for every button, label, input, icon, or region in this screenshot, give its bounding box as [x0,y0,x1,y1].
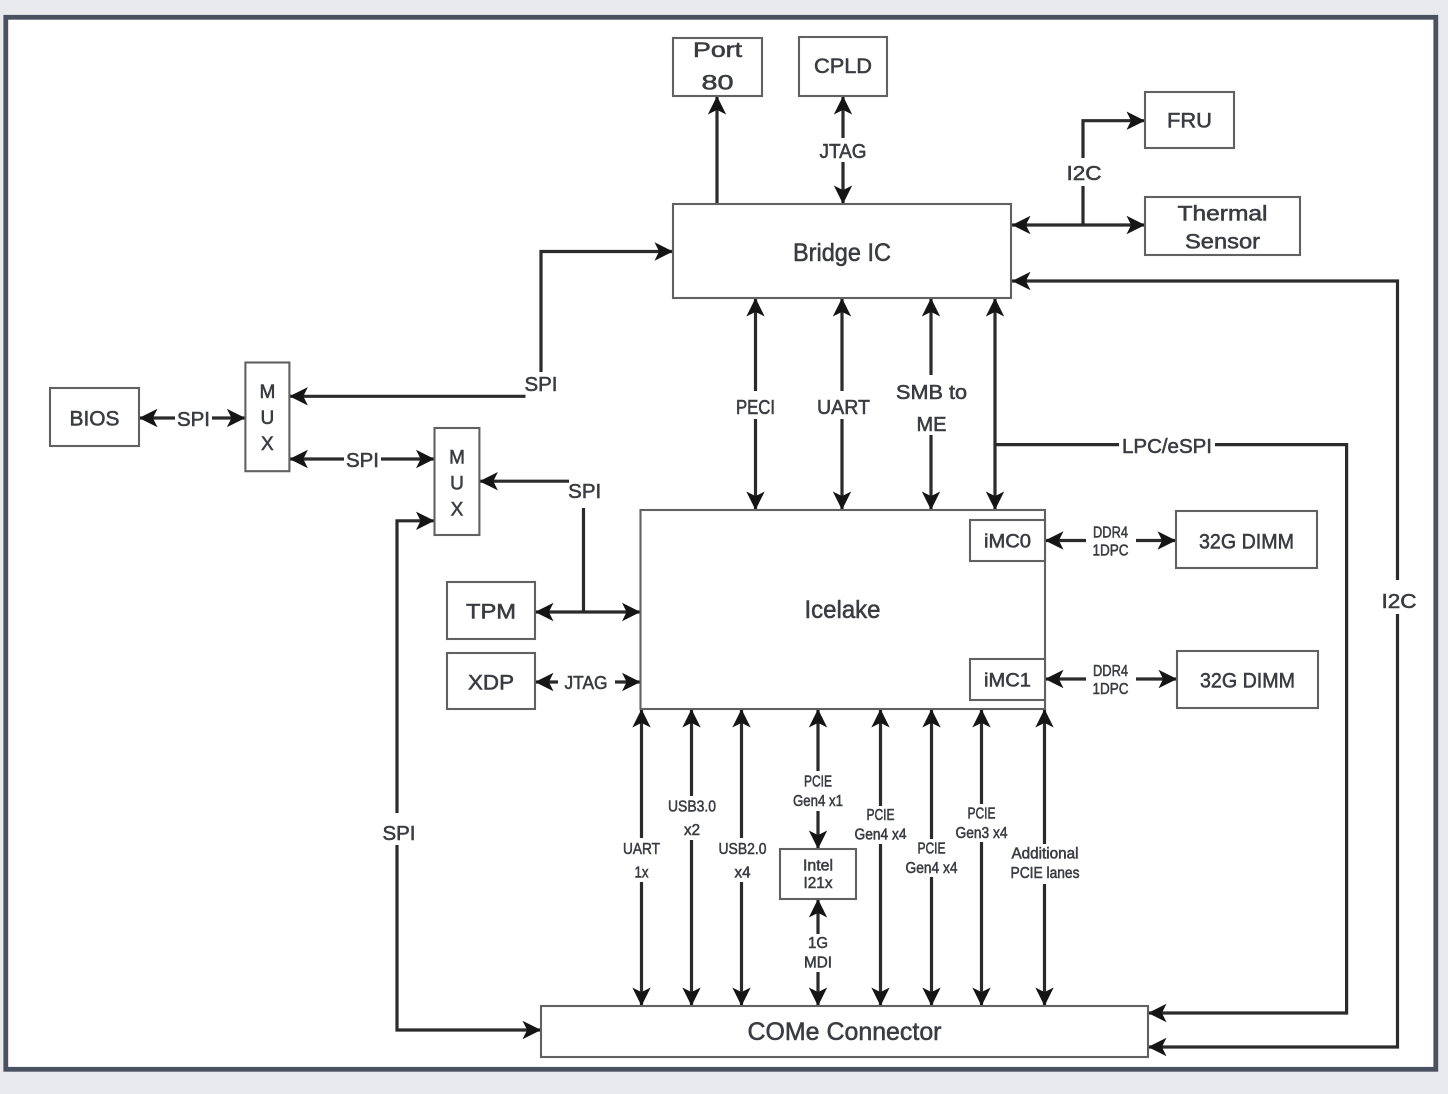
svg-text:Icelake: Icelake [805,596,881,624]
svg-text:32G DIMM: 32G DIMM [1199,531,1294,554]
svg-text:Intel: Intel [803,858,833,875]
svg-text:PCIE: PCIE [804,774,832,791]
wire: PCIE Gen3 x4 Icelake to COMe [980,709,983,1006]
label SPI (bridge elbow) [525,374,558,396]
svg-text:BIOS: BIOS [70,408,120,431]
box 32G DIMM (bottom) [1177,651,1318,708]
label JTAG (XDP) [558,669,615,693]
wire: SMB to ME Bridge IC to Icelake [929,298,932,510]
svg-text:PECI: PECI [736,397,775,419]
svg-text:SMB to: SMB to [896,382,967,404]
svg-text:PCIE: PCIE [867,807,895,824]
svg-text:Additional: Additional [1012,846,1079,863]
svg-text:SPI: SPI [383,823,416,845]
svg-text:UART: UART [817,397,870,419]
box Bridge IC [673,204,1011,298]
label PCIE Gen4 x4 (a) [850,806,911,844]
svg-text:CPLD: CPLD [814,55,872,78]
svg-text:M: M [449,448,465,469]
svg-text:PCIE: PCIE [918,841,946,858]
label SPI (MUX-MUX) [344,446,381,472]
wire: PECI Bridge IC to Icelake [754,298,757,510]
label LPC/eSPI [1119,432,1215,458]
svg-text:Bridge IC: Bridge IC [793,239,891,267]
svg-text:Gen4 x4: Gen4 x4 [855,827,907,844]
svg-text:Port: Port [693,39,742,62]
svg-text:x2: x2 [684,822,700,839]
box MUX 1 [245,363,289,472]
svg-text:XDP: XDP [468,672,514,695]
svg-text:DDR4: DDR4 [1093,525,1128,542]
svg-text:SPI: SPI [525,374,558,396]
label PECI [728,391,783,419]
wire: LPC/eSPI branch to COMe right [995,445,1347,1013]
label PCIE Gen4 x1 [788,771,848,811]
svg-text:X: X [451,500,464,521]
svg-text:MDI: MDI [804,955,832,972]
wire: long SPI MUX2 left to COMe left [397,521,541,1030]
svg-text:PCIE lanes: PCIE lanes [1011,865,1080,882]
box BIOS [50,388,139,446]
svg-text:32G DIMM: 32G DIMM [1200,670,1295,693]
label USB2.0 x4 [714,838,770,882]
svg-text:USB3.0: USB3.0 [668,799,716,816]
box Icelake [641,510,1046,709]
svg-text:Sensor: Sensor [1185,231,1260,254]
svg-text:FRU: FRU [1167,110,1212,133]
box iMC0 [970,520,1045,561]
svg-text:x4: x4 [735,865,751,882]
wire: vertical from SPI label to TPM line [582,508,585,612]
wire: DDR4 iMC1 to 32G DIMM [1045,677,1177,680]
svg-text:1DPC: 1DPC [1093,543,1129,560]
label PCIE Gen4 x4 (b) [901,839,962,877]
wire: SPI elbow into Bridge IC left [541,252,673,373]
wire: Bridge IC to Thermal Sensor [1012,223,1145,226]
label DDR4 1DPC (top) [1086,522,1136,560]
box FRU [1145,92,1234,148]
svg-text:JTAG: JTAG [565,673,608,693]
wire: UART 1x Icelake to COMe [640,709,643,1006]
wire: BIOS to MUX1 SPI [139,416,245,419]
svg-text:1DPC: 1DPC [1093,681,1129,698]
wire: TPM to Icelake [535,610,641,613]
wire: PCIE Gen4 x4 (a) Icelake to COMe [879,709,882,1006]
label JTAG (top) [813,138,873,163]
svg-text:I21x: I21x [804,875,833,892]
svg-text:COMe Connector: COMe Connector [748,1018,942,1046]
label SPI (BIOS) [175,405,212,431]
wire: LPC vertical Bridge IC to Icelake [993,298,996,510]
svg-text:80: 80 [702,72,734,95]
svg-text:U: U [261,408,275,429]
svg-text:I2C: I2C [1382,591,1417,613]
box 32G DIMM (top) [1176,511,1317,568]
svg-text:Gen4 x1: Gen4 x1 [793,793,843,810]
box Thermal Sensor [1145,197,1300,255]
label I2C (top) [1062,158,1104,186]
label SPI (MUX2 right) [568,481,601,503]
wire: USB2.0 x4 Icelake to COMe [740,709,743,1006]
svg-text:U: U [450,474,464,495]
svg-text:Gen4 x4: Gen4 x4 [906,860,958,877]
svg-text:JTAG: JTAG [820,141,867,163]
svg-text:iMC1: iMC1 [984,671,1031,692]
box Intel I21x [780,849,856,899]
svg-text:SPI: SPI [177,409,210,431]
svg-text:I2C: I2C [1067,163,1102,185]
wire: PCIE Gen4 x1 Icelake to Intel I21x [816,709,819,849]
svg-text:iMC0: iMC0 [984,532,1031,553]
label PCIE Gen3 x4 [951,804,1012,842]
wire: SPI into MUX2 right [479,480,569,483]
wire: SPI into MUX1 right [289,395,525,398]
svg-text:Gen3 x4: Gen3 x4 [956,825,1008,842]
box COMe Connector [541,1006,1148,1057]
label Additional PCIE lanes [1007,844,1083,884]
svg-text:ME: ME [917,414,947,436]
svg-text:PCIE: PCIE [968,806,996,823]
wire: I2C long line Bridge IC right to COMe right [1012,281,1398,1047]
wire: Bridge IC to Port 80 [715,96,718,204]
box iMC1 [970,659,1045,700]
label DDR4 1DPC (bottom) [1086,660,1136,698]
wire: USB3.0 x2 Icelake to COMe [690,709,693,1006]
wire: I2C elbow to FRU [1083,121,1145,225]
svg-text:UART: UART [623,841,660,858]
wire: PCIE Gen4 x4 (b) Icelake to COMe [930,709,933,1006]
label SPI (long left) [378,813,418,845]
box Port 80 [673,38,762,96]
wire: 1G MDI Intel I21x to COMe [816,899,819,1006]
wire: CPLD JTAG to Bridge IC [841,96,844,204]
svg-text:SPI: SPI [568,481,601,503]
wire: XDP JTAG to Icelake [535,680,641,683]
box XDP [447,653,535,709]
svg-text:TPM: TPM [466,601,516,624]
wire: Additional PCIE lanes Icelake to COMe [1043,709,1046,1006]
box CPLD [799,37,887,96]
svg-text:USB2.0: USB2.0 [719,841,767,858]
svg-text:M: M [259,382,275,403]
svg-text:DDR4: DDR4 [1093,663,1128,680]
svg-text:SPI: SPI [346,450,379,472]
box MUX 2 [435,428,480,535]
label UART [812,391,874,419]
label USB3.0 x2 [664,796,720,840]
svg-text:1x: 1x [635,865,649,882]
wire: DDR4 iMC0 to 32G DIMM [1045,539,1176,542]
label I2C (right) [1377,580,1419,614]
wire: MUX1 to MUX2 SPI [289,457,434,460]
wire: UART Bridge IC to Icelake [840,298,843,510]
svg-text:1G: 1G [808,935,828,952]
svg-text:X: X [261,434,274,455]
label SMB to ME [888,375,974,436]
label 1G MDI [798,934,838,972]
svg-text:LPC/eSPI: LPC/eSPI [1122,436,1212,458]
label UART 1x [616,838,667,882]
svg-text:Thermal: Thermal [1178,203,1268,226]
box TPM [447,582,535,639]
